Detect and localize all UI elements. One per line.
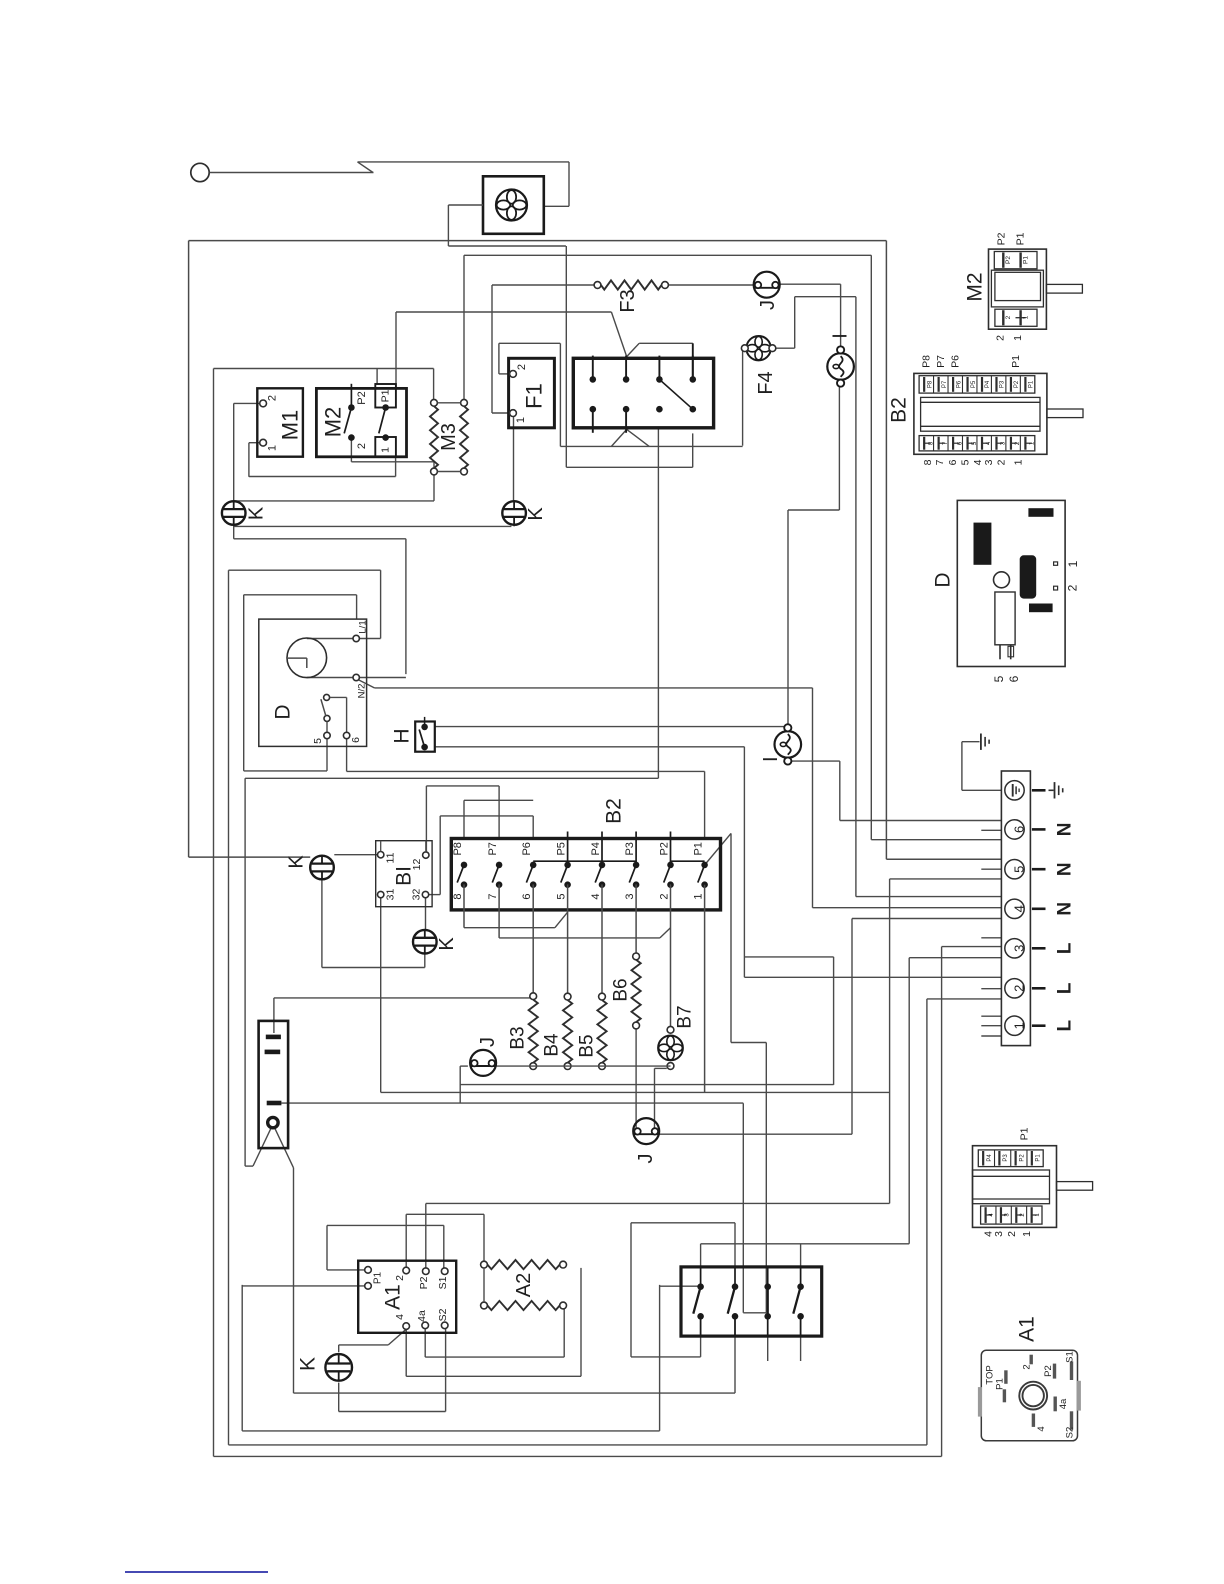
svg-text:P4: P4 xyxy=(985,380,991,388)
svg-text:B2: B2 xyxy=(888,397,911,423)
svg-text:N: N xyxy=(1055,862,1076,876)
svg-text:A2: A2 xyxy=(513,1273,535,1297)
svg-text:P8: P8 xyxy=(927,380,933,388)
svg-text:A1: A1 xyxy=(382,1284,405,1310)
svg-text:1: 1 xyxy=(1035,1213,1041,1217)
svg-text:B3: B3 xyxy=(508,1026,529,1049)
svg-text:4: 4 xyxy=(590,893,602,899)
svg-text:A1: A1 xyxy=(1016,1316,1039,1342)
svg-text:N: N xyxy=(1055,902,1076,916)
svg-text:H: H xyxy=(391,728,414,743)
svg-text:K: K xyxy=(525,507,547,521)
svg-text:P5: P5 xyxy=(555,842,567,855)
svg-text:P7: P7 xyxy=(935,355,947,368)
svg-text:M1: M1 xyxy=(278,410,303,441)
svg-text:M2: M2 xyxy=(964,272,987,301)
svg-text:P3: P3 xyxy=(1003,1154,1009,1162)
svg-text:L: L xyxy=(1055,942,1076,954)
svg-text:1: 1 xyxy=(1021,1231,1033,1237)
svg-text:2: 2 xyxy=(1006,1231,1018,1237)
svg-text:2: 2 xyxy=(1005,315,1012,319)
svg-text:7: 7 xyxy=(487,893,499,899)
svg-text:4: 4 xyxy=(1036,1426,1047,1431)
svg-text:I: I xyxy=(830,333,852,339)
svg-text:2: 2 xyxy=(996,459,1008,465)
svg-text:1: 1 xyxy=(267,445,279,451)
svg-text:P8: P8 xyxy=(452,842,464,855)
svg-text:3: 3 xyxy=(993,1231,1005,1237)
svg-text:5: 5 xyxy=(556,893,568,899)
svg-text:2: 2 xyxy=(267,395,279,401)
svg-text:D: D xyxy=(932,572,955,587)
svg-text:3: 3 xyxy=(1012,945,1027,952)
svg-text:B5: B5 xyxy=(577,1034,598,1057)
svg-text:6: 6 xyxy=(350,737,362,743)
svg-text:5: 5 xyxy=(992,675,1006,682)
svg-text:P5: P5 xyxy=(971,380,977,388)
svg-text:K: K xyxy=(436,937,458,951)
svg-text:P3: P3 xyxy=(624,842,636,855)
svg-text:2: 2 xyxy=(394,1275,406,1281)
svg-text:6: 6 xyxy=(1007,675,1021,682)
svg-text:1: 1 xyxy=(1012,459,1024,465)
svg-text:BI: BI xyxy=(393,866,416,886)
svg-text:P2: P2 xyxy=(1005,256,1012,264)
svg-text:F1: F1 xyxy=(522,383,547,409)
svg-text:5: 5 xyxy=(312,738,324,744)
svg-text:2: 2 xyxy=(1020,1213,1026,1217)
svg-text:P1: P1 xyxy=(995,1378,1006,1390)
svg-text:P1: P1 xyxy=(380,389,392,402)
svg-text:5: 5 xyxy=(1012,866,1027,873)
svg-text:P3: P3 xyxy=(1000,380,1006,388)
svg-text:7: 7 xyxy=(934,459,946,465)
svg-text:6: 6 xyxy=(521,893,533,899)
svg-text:3: 3 xyxy=(624,893,636,899)
svg-text:1: 1 xyxy=(515,417,527,423)
svg-text:S2: S2 xyxy=(437,1308,449,1321)
svg-text:P2: P2 xyxy=(1043,1365,1054,1377)
svg-text:N: N xyxy=(1055,823,1076,837)
svg-text:P1: P1 xyxy=(1019,1127,1031,1140)
svg-text:31: 31 xyxy=(385,889,397,901)
svg-text:F4: F4 xyxy=(755,371,777,394)
svg-text:K: K xyxy=(246,506,268,520)
svg-text:K: K xyxy=(297,1357,320,1371)
svg-text:3: 3 xyxy=(983,459,995,465)
svg-text:P7: P7 xyxy=(487,842,499,855)
svg-text:8: 8 xyxy=(452,893,464,899)
svg-text:P2: P2 xyxy=(356,391,368,404)
svg-text:J: J xyxy=(757,300,779,310)
svg-text:P1: P1 xyxy=(1036,1154,1042,1162)
svg-text:6: 6 xyxy=(947,459,959,465)
svg-text:2: 2 xyxy=(356,443,368,449)
svg-text:P2: P2 xyxy=(1014,380,1020,388)
svg-text:S2: S2 xyxy=(1065,1427,1076,1439)
svg-text:P1: P1 xyxy=(692,842,704,855)
svg-text:J: J xyxy=(477,1037,499,1047)
svg-text:2: 2 xyxy=(516,364,528,370)
svg-text:F3: F3 xyxy=(617,289,639,312)
svg-text:P6: P6 xyxy=(949,355,961,368)
svg-text:1: 1 xyxy=(1023,315,1030,319)
svg-text:P2: P2 xyxy=(1019,1154,1025,1162)
svg-text:P1: P1 xyxy=(373,1271,384,1284)
svg-text:J: J xyxy=(635,1154,657,1164)
svg-text:P8: P8 xyxy=(920,355,932,368)
svg-text:B7: B7 xyxy=(675,1005,696,1028)
svg-text:L: L xyxy=(1055,1020,1076,1032)
svg-text:32: 32 xyxy=(411,889,423,901)
svg-text:P2: P2 xyxy=(418,1276,430,1289)
svg-text:P6: P6 xyxy=(521,842,533,855)
svg-text:4: 4 xyxy=(394,1314,406,1320)
svg-text:8: 8 xyxy=(922,459,934,465)
svg-text:L: L xyxy=(1055,982,1076,994)
svg-text:M2: M2 xyxy=(321,407,346,438)
svg-text:B4: B4 xyxy=(542,1033,563,1057)
svg-text:D: D xyxy=(272,704,295,719)
svg-text:P4: P4 xyxy=(590,842,602,855)
svg-text:4: 4 xyxy=(1012,905,1027,912)
svg-text:4a: 4a xyxy=(416,1310,428,1322)
svg-text:I: I xyxy=(760,756,782,762)
svg-text:P7: P7 xyxy=(942,380,948,388)
svg-text:P1: P1 xyxy=(1014,232,1026,245)
svg-text:P2: P2 xyxy=(996,232,1008,245)
svg-text:1: 1 xyxy=(1012,1022,1027,1029)
svg-text:P1: P1 xyxy=(1023,256,1030,264)
svg-text:2: 2 xyxy=(1012,985,1027,992)
svg-text:N/2: N/2 xyxy=(357,684,368,699)
svg-text:P6: P6 xyxy=(956,380,962,388)
svg-text:1: 1 xyxy=(1012,335,1024,341)
svg-text:B6: B6 xyxy=(611,978,632,1001)
svg-text:K: K xyxy=(286,855,308,869)
svg-text:S1: S1 xyxy=(1065,1351,1076,1363)
svg-text:B2: B2 xyxy=(603,798,626,824)
svg-text:2: 2 xyxy=(995,335,1007,341)
svg-text:4a: 4a xyxy=(1058,1398,1069,1409)
svg-text:6: 6 xyxy=(1012,826,1027,833)
svg-text:P4: P4 xyxy=(987,1154,993,1162)
svg-text:1: 1 xyxy=(693,893,705,899)
svg-text:4: 4 xyxy=(989,1213,995,1217)
svg-text:2: 2 xyxy=(1022,1364,1033,1369)
svg-text:P1: P1 xyxy=(1029,380,1035,388)
svg-text:L/1: L/1 xyxy=(358,620,369,633)
svg-text:2: 2 xyxy=(659,893,671,899)
svg-text:5: 5 xyxy=(959,459,971,465)
svg-text:P2: P2 xyxy=(658,842,670,855)
svg-text:S1: S1 xyxy=(437,1276,449,1289)
svg-text:1: 1 xyxy=(380,447,392,453)
svg-text:P1: P1 xyxy=(1010,355,1022,368)
svg-text:3: 3 xyxy=(1004,1213,1010,1217)
svg-text:M3: M3 xyxy=(438,423,460,451)
svg-text:2: 2 xyxy=(1066,584,1080,591)
svg-text:11: 11 xyxy=(385,852,397,863)
svg-text:1: 1 xyxy=(1066,560,1080,567)
